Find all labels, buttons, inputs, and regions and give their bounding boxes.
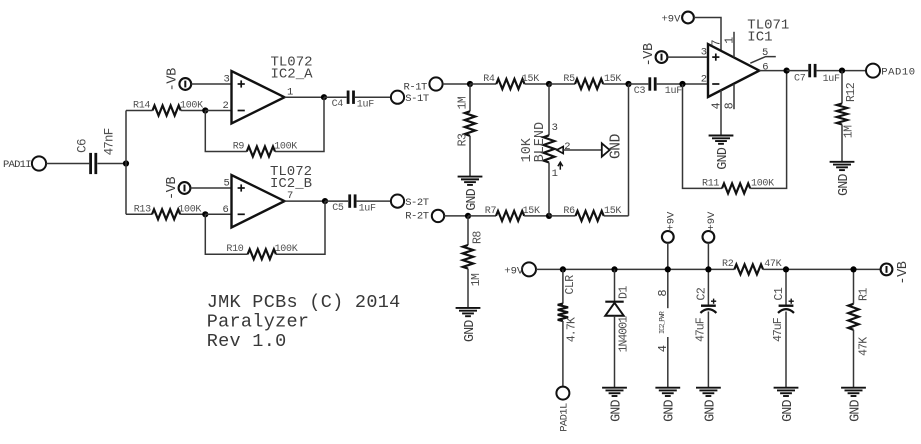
svg-text:1M: 1M: [470, 273, 483, 286]
wire: [325, 200, 348, 202]
svg-text:+9V: +9V: [706, 211, 718, 231]
wire: [668, 56, 709, 58]
svg-text:C3: C3: [634, 86, 646, 97]
svg-text:3: 3: [552, 122, 558, 134]
pad S-2T: [391, 195, 429, 209]
pad PAD10: [866, 64, 916, 79]
svg-text:5: 5: [224, 178, 230, 190]
supply -VB: [166, 68, 192, 91]
svg-text:BLEND: BLEND: [533, 122, 548, 163]
capacitor C7: [794, 64, 840, 85]
junction: [705, 266, 711, 272]
diode D1: [605, 269, 630, 387]
wire: [97, 163, 126, 165]
supply -VB: [881, 261, 912, 284]
svg-text:7: 7: [710, 39, 723, 46]
op-amp IC2_B: [223, 164, 313, 227]
svg-text:8: 8: [656, 289, 670, 296]
svg-text:1M: 1M: [842, 125, 855, 138]
resistor R11: [702, 178, 774, 193]
svg-text:1uF: 1uF: [665, 86, 682, 97]
svg-text:C6: C6: [75, 139, 89, 153]
wire: [444, 215, 468, 217]
op-amp IC1: [701, 18, 790, 110]
junction: [679, 81, 685, 87]
wire: [46, 163, 89, 165]
pin 1 stub: [733, 32, 735, 58]
ground: [841, 388, 866, 422]
ground: [709, 136, 734, 170]
supply -VB: [642, 43, 667, 66]
supply +9V: [703, 211, 718, 243]
resistor R8: [463, 216, 485, 308]
capacitor C6: [75, 128, 116, 174]
wire: [785, 269, 787, 305]
svg-text:R9: R9: [233, 141, 245, 152]
capacitor C2: [694, 287, 716, 342]
wire: [683, 84, 723, 188]
supply +9V: [662, 211, 677, 243]
svg-text:R6: R6: [563, 206, 575, 217]
pin 8 stub: [733, 84, 735, 109]
wire: [787, 70, 809, 72]
svg-text:IC2_B: IC2_B: [270, 176, 312, 192]
svg-text:R7: R7: [485, 206, 497, 217]
svg-text:3: 3: [701, 46, 707, 58]
resistor R13: [126, 204, 205, 219]
svg-text:Paralyzer: Paralyzer: [207, 311, 310, 332]
ground: [655, 388, 680, 422]
wire: [357, 200, 391, 202]
resistor R3: [456, 84, 475, 177]
svg-text:1uF: 1uF: [359, 204, 376, 215]
svg-text:15K: 15K: [604, 206, 621, 217]
svg-text:R12: R12: [845, 82, 858, 102]
resistor R6: [549, 206, 629, 221]
svg-text:+9V: +9V: [662, 13, 682, 25]
svg-text:47uF: 47uF: [694, 317, 707, 342]
potentiometer BLEND 10K: [520, 122, 571, 216]
junction: [560, 266, 566, 272]
svg-text:47K: 47K: [764, 259, 781, 270]
resistor R1: [848, 288, 870, 388]
junction: [123, 160, 129, 166]
svg-text:R1: R1: [857, 288, 870, 301]
svg-text:R4: R4: [483, 74, 495, 85]
svg-text:+9V: +9V: [504, 265, 524, 277]
svg-text:47uF: 47uF: [772, 317, 785, 342]
resistor R7: [468, 206, 549, 221]
svg-text:C5: C5: [332, 203, 344, 214]
wire: [548, 84, 550, 135]
svg-text:47K: 47K: [857, 337, 870, 356]
svg-text:GND: GND: [837, 174, 852, 196]
svg-text:-VB: -VB: [165, 177, 180, 200]
svg-text:GND: GND: [781, 399, 796, 421]
svg-text:GND: GND: [663, 399, 678, 421]
wire: [285, 200, 326, 202]
svg-text:R10: R10: [226, 244, 243, 255]
wire: [667, 337, 669, 388]
svg-text:R3: R3: [457, 133, 470, 146]
junction: [611, 266, 617, 272]
wire: [759, 70, 786, 72]
wire: [628, 84, 630, 216]
svg-text:4.7K: 4.7K: [565, 317, 578, 342]
svg-text:R-1T: R-1T: [404, 81, 428, 93]
wire: [355, 96, 391, 98]
resistor R10: [226, 244, 297, 259]
junction: [467, 81, 473, 87]
ground GND arrow: [602, 134, 625, 159]
wire: [191, 187, 232, 189]
wire: [694, 18, 721, 52]
wire: [191, 83, 231, 85]
resistor R4: [470, 74, 549, 89]
wire: [763, 268, 881, 270]
junction: [546, 213, 552, 219]
svg-text:IC2_A: IC2_A: [271, 66, 314, 82]
svg-text:100K: 100K: [178, 204, 201, 215]
wire: [707, 312, 709, 388]
svg-text:IC1: IC1: [747, 30, 772, 46]
wire: [276, 201, 325, 254]
pin 5 stub: [750, 57, 776, 64]
wire: [205, 111, 247, 152]
svg-text:GND: GND: [608, 134, 624, 159]
wire: [750, 71, 786, 189]
svg-text:1uF: 1uF: [823, 74, 840, 85]
wire: [443, 83, 470, 85]
junction: [546, 81, 552, 87]
resistor R9: [233, 141, 298, 156]
svg-text:GND: GND: [848, 399, 863, 421]
capacitor C3: [634, 77, 682, 97]
wire: [629, 83, 649, 85]
svg-text:R14: R14: [133, 101, 150, 112]
junction: [202, 211, 208, 217]
svg-text:GND: GND: [463, 320, 478, 342]
ground: [830, 162, 855, 196]
junction: [465, 213, 471, 219]
svg-text:PAD1L: PAD1L: [559, 403, 571, 432]
svg-text:C7: C7: [794, 74, 806, 85]
capacitor C1: [772, 287, 794, 342]
svg-text:15K: 15K: [604, 74, 621, 85]
svg-text:1uF: 1uF: [357, 100, 374, 111]
junction: [625, 81, 631, 87]
junction: [202, 107, 208, 113]
pad S-1T: [391, 91, 429, 105]
wire: [785, 312, 787, 388]
pad PAD1L: [556, 387, 570, 432]
svg-text:-VB: -VB: [896, 261, 911, 284]
svg-text:6: 6: [762, 61, 768, 73]
capacitor C5: [332, 194, 376, 214]
svg-text:15K: 15K: [523, 206, 540, 217]
resistor CLR 4.7K: [558, 269, 579, 386]
svg-text:C2: C2: [695, 287, 708, 300]
svg-text:2: 2: [701, 73, 707, 85]
svg-text:C4: C4: [332, 99, 344, 110]
wire: [657, 83, 708, 85]
svg-text:D1: D1: [618, 286, 631, 299]
pad R-1T: [404, 77, 443, 93]
svg-text:-VB: -VB: [166, 68, 181, 91]
junction: [665, 266, 671, 272]
capacitor C4: [332, 91, 375, 111]
svg-text:2: 2: [223, 100, 229, 112]
svg-text:1M: 1M: [456, 96, 469, 109]
svg-text:S-2T: S-2T: [405, 197, 429, 209]
svg-text:2: 2: [564, 141, 570, 153]
wire: [563, 149, 602, 151]
svg-text:R11: R11: [702, 178, 719, 189]
supply +9V: [662, 12, 694, 26]
wire: [853, 269, 855, 303]
svg-text:JMK PCBs (C) 2014: JMK PCBs (C) 2014: [207, 292, 401, 313]
svg-text:15K: 15K: [522, 74, 539, 85]
junction: [839, 68, 845, 74]
wire: [817, 70, 867, 72]
wire: [285, 96, 325, 98]
wire: [205, 214, 247, 254]
svg-text:C1: C1: [773, 287, 786, 300]
ic IC2_PWR pins: [656, 289, 670, 352]
junction: [322, 198, 328, 204]
svg-text:Rev 1.0: Rev 1.0: [207, 331, 287, 352]
wire: [707, 243, 709, 306]
svg-text:S-1T: S-1T: [405, 93, 429, 105]
pad R-2T: [405, 210, 444, 223]
svg-text:6: 6: [223, 204, 229, 216]
junction: [850, 266, 856, 272]
svg-text:100K: 100K: [180, 101, 203, 112]
wire: [125, 111, 127, 215]
supply -VB: [165, 177, 190, 200]
svg-text:R-2T: R-2T: [405, 210, 429, 222]
svg-text:GND: GND: [716, 147, 731, 169]
pin 4 wire: [720, 90, 722, 136]
svg-text:3: 3: [224, 74, 230, 86]
resistor R14: [126, 101, 205, 116]
ground: [696, 388, 721, 422]
svg-text:+9V: +9V: [665, 211, 677, 231]
svg-text:-VB: -VB: [642, 43, 657, 66]
ground: [458, 177, 483, 211]
svg-text:47nF: 47nF: [102, 128, 116, 155]
pad PAD1I: [3, 156, 46, 171]
svg-text:PAD1I: PAD1I: [3, 159, 31, 171]
ground: [456, 308, 481, 342]
ground: [602, 388, 627, 422]
resistor R2: [722, 259, 782, 274]
title text: [207, 292, 401, 352]
wire: [275, 97, 324, 151]
svg-text:R13: R13: [134, 204, 151, 215]
svg-text:R2: R2: [722, 259, 734, 270]
resistor R12: [837, 71, 858, 162]
wire: [324, 96, 347, 98]
junction: [784, 68, 790, 74]
op-amp IC2_A: [223, 54, 314, 123]
wire: [205, 110, 231, 112]
svg-text:R8: R8: [472, 231, 485, 244]
junction: [783, 266, 789, 272]
svg-text:R5: R5: [563, 74, 575, 85]
svg-text:1N4001: 1N4001: [618, 316, 631, 353]
svg-text:IC2_PWR: IC2_PWR: [659, 310, 667, 334]
junction: [321, 94, 327, 100]
svg-text:CLR: CLR: [564, 275, 577, 295]
wire: [536, 268, 734, 270]
pad +9V: [504, 262, 536, 277]
svg-text:GND: GND: [465, 188, 480, 210]
resistor R5: [549, 74, 629, 89]
wire: [205, 213, 231, 215]
wire: [667, 243, 669, 308]
svg-text:PAD10: PAD10: [881, 67, 916, 79]
ground: [774, 388, 799, 422]
svg-text:1: 1: [552, 168, 558, 180]
svg-text:GND: GND: [609, 399, 624, 421]
svg-text:GND: GND: [703, 399, 718, 421]
